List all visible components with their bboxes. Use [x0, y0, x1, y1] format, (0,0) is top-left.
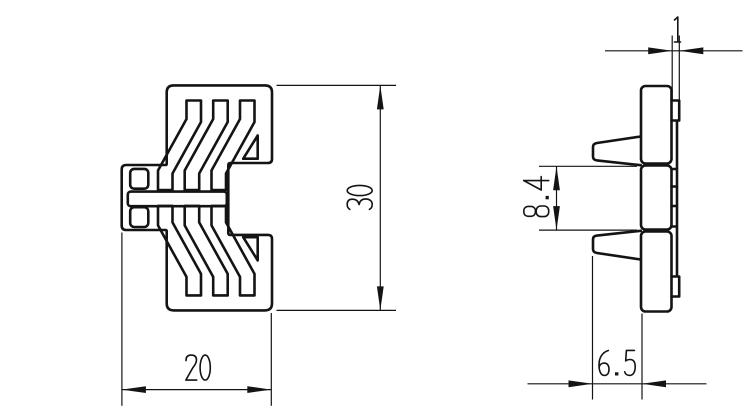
upper fin slot 2: [185, 101, 228, 191]
dim 30 extension line bottom: [277, 309, 397, 311]
front view outer profile outline: [122, 85, 272, 310]
text 8.4 (rotated): [524, 177, 549, 217]
lower fin slot 1 (mirrored): [158, 206, 201, 296]
dim 20 arrowhead right: [247, 386, 271, 393]
body middle section: [641, 166, 672, 230]
dim 8.4 extension line top: [539, 165, 637, 167]
dim 20 extension line right: [270, 313, 272, 406]
dim 30 arrowhead bottom: [377, 286, 384, 310]
text 6.5: [599, 350, 635, 375]
dim 8.4 arrowhead bottom: [553, 206, 560, 230]
dim 1 arrowhead left: [648, 47, 672, 54]
dim 20 dimension line: [122, 389, 271, 391]
dim 6.5 arrowhead right: [642, 380, 666, 387]
upper triangular slot: [243, 136, 258, 159]
body upper section: [641, 86, 672, 164]
lower triangular slot (mirrored): [243, 237, 258, 260]
dim 1 extension line right: [678, 36, 680, 100]
dim 30 extension line top: [277, 84, 397, 86]
body lower section: [641, 232, 672, 312]
text 20: [186, 355, 211, 380]
dim 8.4 dimension line: [556, 166, 558, 230]
dim 1 dimension line: [605, 50, 743, 52]
dim 6.5 extension line left: [592, 256, 594, 400]
lower small tab slot (mirrored): [130, 207, 148, 227]
dim 1 arrowhead right: [679, 47, 703, 54]
upper fin slot 3: [212, 101, 255, 191]
text 30 (rotated): [347, 185, 372, 209]
dim 8.4 arrowhead top: [553, 166, 560, 190]
dim 30 arrowhead top: [377, 85, 384, 109]
lower fin slot 3 (mirrored): [212, 206, 255, 296]
text 1: [674, 17, 680, 42]
dim 8.4 extension line bottom: [539, 229, 637, 231]
lower left fin tab: [593, 231, 641, 260]
dim 30 dimension line: [379, 85, 381, 310]
back plate edge strip with segment lines: [672, 101, 680, 297]
dim 6.5 dimension line: [528, 383, 707, 385]
dim 20 arrowhead left: [122, 386, 146, 393]
dim 6.5 arrowhead left: [569, 380, 593, 387]
upper small tab slot: [130, 169, 148, 189]
dim 20 extension line left: [121, 233, 123, 406]
dim 6.5 extension line right: [641, 314, 643, 400]
upper left fin tab: [593, 137, 641, 166]
dim 1 extension line left: [671, 36, 673, 100]
upper fin slot 1: [158, 101, 201, 191]
central horizontal slot: [128, 192, 227, 207]
lower fin slot 2 (mirrored): [185, 206, 228, 296]
